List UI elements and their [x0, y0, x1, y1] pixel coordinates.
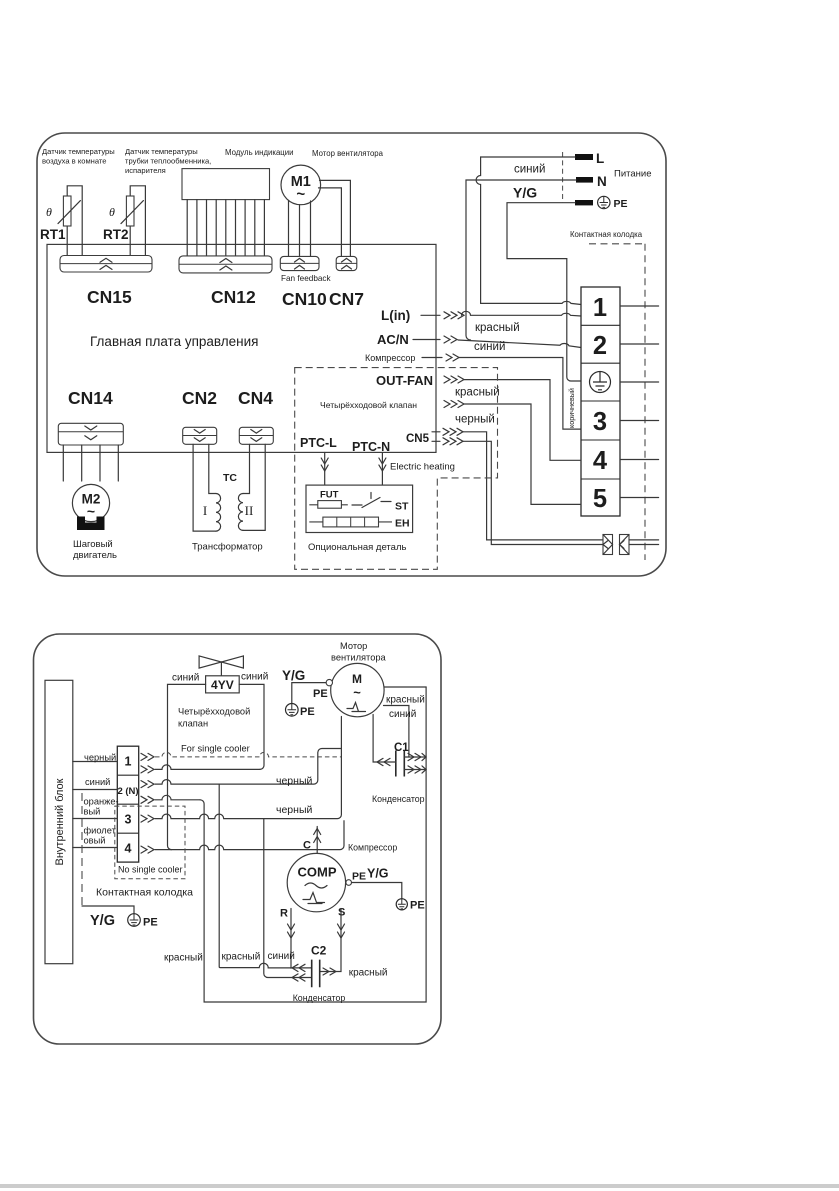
- COMP PE dot: [346, 880, 352, 886]
- terminal right stub wires: [620, 306, 659, 498]
- svg-text:Шаговый: Шаговый: [73, 539, 113, 550]
- svg-text:Y/G: Y/G: [367, 867, 389, 881]
- compressor COMP circle: [287, 853, 345, 911]
- dashed ground branch: [81, 793, 83, 906]
- svg-text:CN15: CN15: [87, 287, 132, 307]
- dashed optional section boundary: [295, 368, 498, 570]
- svg-text:3: 3: [593, 408, 607, 436]
- detachable connector right: [620, 535, 630, 555]
- wire Y/G bottom: [82, 906, 134, 914]
- svg-text:2 (N): 2 (N): [117, 786, 138, 797]
- arrows CN5 upper: [443, 428, 463, 435]
- arrows C2 right: [323, 968, 336, 975]
- thermal switch ST: [352, 493, 391, 508]
- arrows C2 left upper: [292, 964, 305, 971]
- Y/G vertical to ground cell: [567, 259, 581, 381]
- optional parts box: [306, 485, 413, 532]
- svg-text:No single cooler: No single cooler: [118, 865, 183, 875]
- connector CN14: [58, 423, 123, 445]
- dashed plug boundary: [562, 152, 564, 203]
- svg-text:Датчик температуры: Датчик температуры: [125, 147, 198, 156]
- svg-text:Мотор: Мотор: [340, 641, 367, 651]
- svg-text:For single cooler: For single cooler: [181, 744, 250, 754]
- arrows cell1 row: [141, 766, 154, 773]
- connector outgoing wires: [629, 540, 659, 545]
- outer border frame top diagram: [37, 133, 666, 576]
- arrows R down: [288, 924, 295, 938]
- wire C1 right upper: [404, 756, 426, 758]
- black wire V4 to C2: [219, 784, 311, 968]
- indoor unit box: [45, 680, 73, 963]
- svg-text:θ: θ: [46, 205, 52, 219]
- arrows AC/N: [444, 336, 457, 343]
- arrows C up: [314, 829, 321, 843]
- display module pins: [187, 200, 264, 256]
- wire motor bottom to C1 left: [373, 715, 396, 763]
- thermistor RT2 wires: [130, 186, 145, 256]
- M1 wires to CN7: [319, 180, 351, 256]
- transformer primary wires: [193, 444, 216, 531]
- display module box: [182, 169, 270, 200]
- svg-text:овый: овый: [84, 836, 106, 846]
- svg-text:вый: вый: [84, 807, 101, 817]
- No single cooler dashed box: [115, 806, 185, 879]
- wire Y/G motor to ground: [292, 683, 326, 704]
- svg-text:Контактная колодка: Контактная колодка: [570, 230, 643, 239]
- svg-text:Опциональная деталь: Опциональная деталь: [308, 542, 406, 553]
- wire motor red right: [384, 686, 426, 688]
- svg-text:Контактная колодка: Контактная колодка: [96, 887, 193, 899]
- wire cell2 red short: [155, 795, 200, 799]
- capacitor C2 plates: [312, 960, 320, 988]
- fan motor M circle: [331, 663, 384, 716]
- S wire down: [321, 909, 341, 972]
- svg-text:черный: черный: [84, 753, 116, 763]
- svg-text:черный: черный: [276, 775, 312, 787]
- M overload glyph: [347, 703, 366, 712]
- svg-text:красный: красный: [475, 322, 520, 334]
- svg-text:Y/G: Y/G: [90, 913, 115, 929]
- svg-text:Y/G: Y/G: [513, 185, 537, 201]
- svg-text:Компрессор: Компрессор: [365, 353, 415, 363]
- power terminal PE bar: [575, 200, 593, 205]
- M2 black bracket symbol: [77, 517, 105, 531]
- wire L to down corner: [476, 157, 575, 303]
- power terminal L bar: [575, 154, 593, 160]
- svg-text:CN7: CN7: [329, 289, 364, 309]
- svg-text:черный: черный: [455, 414, 495, 426]
- svg-text:1: 1: [593, 294, 607, 322]
- svg-text:OUT-FAN: OUT-FAN: [376, 373, 433, 388]
- svg-text:5: 5: [593, 485, 607, 513]
- svg-text:Внутренний блок: Внутренний блок: [54, 778, 66, 865]
- 4YV box: [206, 676, 240, 693]
- thermistor RT1 wires: [67, 186, 82, 256]
- svg-text:C: C: [303, 840, 311, 852]
- svg-text:4: 4: [125, 842, 132, 856]
- svg-text:красный: красный: [164, 953, 203, 964]
- svg-text:~: ~: [296, 186, 305, 203]
- arrows OUT-FAN: [444, 376, 464, 383]
- CN14 pins: [63, 445, 118, 481]
- svg-text:красный: красный: [455, 387, 500, 399]
- wire PTC-L down: [324, 453, 326, 486]
- svg-text:2: 2: [593, 332, 607, 360]
- compressor C wire with arrows: [316, 827, 318, 854]
- svg-text:Fan feedback: Fan feedback: [281, 274, 332, 283]
- svg-text:N: N: [597, 174, 607, 189]
- svg-text:Конденсатор: Конденсатор: [372, 794, 425, 804]
- svg-text:оранже-: оранже-: [84, 797, 119, 807]
- wire CN5 lower: [432, 441, 603, 544]
- wire C1 right lower: [404, 769, 426, 771]
- wire Y/G from PE: [507, 203, 575, 259]
- R wire down: [290, 909, 292, 969]
- thermistor RT2 body: [126, 196, 134, 226]
- svg-text:II: II: [245, 503, 254, 518]
- svg-text:CN14: CN14: [68, 388, 113, 408]
- svg-text:Главная плата управления: Главная плата управления: [90, 334, 258, 349]
- arrows PTC-N down: [379, 458, 386, 471]
- wire COMP PE to ground: [352, 883, 402, 899]
- detachable connector left: [603, 535, 613, 555]
- svg-text:Мотор вентилятора: Мотор вентилятора: [312, 149, 384, 158]
- svg-text:Конденсатор: Конденсатор: [293, 993, 346, 1003]
- transformer secondary wires: [243, 444, 265, 530]
- svg-text:Четырёхходовой клапан: Четырёхходовой клапан: [320, 400, 417, 410]
- thermistor RT2 diagonal: [121, 201, 143, 224]
- svg-text:CN2: CN2: [182, 388, 217, 408]
- wire 4YV left: [168, 684, 206, 849]
- arrows C1 right lower: [408, 766, 426, 773]
- wire L horizontal into terminal 1: [481, 301, 581, 304]
- terminal strip 2 box: [117, 746, 138, 862]
- COMP overload glyph: [303, 893, 325, 904]
- arrows CN5 lower: [443, 438, 463, 445]
- PE ground symbol COMP: [396, 899, 407, 910]
- svg-text:синий: синий: [389, 709, 416, 720]
- svg-text:L(in): L(in): [381, 308, 410, 323]
- dashed terminal block boundary vertical: [644, 244, 646, 560]
- svg-text:Датчик температуры: Датчик температуры: [42, 147, 115, 156]
- svg-text:вентилятора: вентилятора: [331, 653, 387, 663]
- wire OUT-FAN to terminal 4: [464, 380, 581, 461]
- arrows cell4 row: [141, 846, 154, 853]
- connector CN2: [183, 427, 217, 444]
- arrows cell2 row1: [141, 781, 154, 788]
- indoor unit wires to strip: [73, 762, 118, 848]
- outer border frame bottom diagram: [34, 634, 442, 1044]
- svg-text:трубки теплообменника,: трубки теплообменника,: [125, 157, 211, 166]
- arrows клапан: [444, 401, 464, 408]
- svg-text:двигатель: двигатель: [73, 550, 117, 561]
- main control board rectangle: [47, 244, 436, 452]
- svg-text:CN5: CN5: [406, 433, 430, 445]
- connector CN7: [336, 256, 357, 270]
- blue vertical to C2: [264, 819, 311, 978]
- svg-text:C2: C2: [311, 944, 327, 958]
- COMP tilde: [305, 883, 327, 888]
- svg-text:CN12: CN12: [211, 287, 256, 307]
- svg-text:~: ~: [353, 685, 361, 700]
- arrows cell2 row2: [141, 796, 154, 803]
- wire 4YV right: [239, 684, 264, 769]
- wire AC/N to terminal 2: [458, 340, 581, 348]
- arrows S down: [338, 924, 345, 938]
- fan motor M1 circle: [281, 165, 321, 205]
- svg-text:RT2: RT2: [103, 227, 129, 242]
- wire cell4 black bottom: [155, 821, 344, 850]
- svg-text:~: ~: [87, 503, 95, 519]
- svg-text:синий: синий: [241, 672, 268, 683]
- svg-text:M: M: [352, 672, 362, 686]
- stepper motor M2 circle: [72, 484, 109, 521]
- svg-text:Трансформатор: Трансформатор: [192, 542, 263, 553]
- fuse symbol: [309, 501, 348, 509]
- svg-text:черный: черный: [276, 804, 312, 816]
- terminal cell borders: [581, 325, 620, 479]
- wire N to down corner: [466, 180, 576, 340]
- svg-text:испарителя: испарителя: [125, 166, 166, 175]
- svg-text:красный: красный: [222, 952, 261, 963]
- terminal PE ground symbol: [590, 372, 611, 393]
- wire L(in) to terminal 1: [421, 314, 440, 316]
- svg-text:PTC-L: PTC-L: [300, 436, 337, 450]
- svg-text:S: S: [338, 907, 345, 919]
- capacitor C1 plates: [396, 751, 405, 777]
- svg-text:L: L: [596, 151, 604, 166]
- connector CN12: [179, 256, 272, 273]
- svg-text:воздуха в комнате: воздуха в комнате: [42, 157, 107, 166]
- svg-text:ST: ST: [395, 501, 409, 513]
- svg-text:RT1: RT1: [40, 227, 66, 242]
- connector CN10: [280, 256, 319, 270]
- svg-text:I: I: [203, 503, 207, 518]
- arrows C1 left: [377, 758, 390, 765]
- svg-text:Питание: Питание: [614, 169, 652, 180]
- svg-text:PE: PE: [614, 198, 628, 210]
- svg-text:фиолет: фиолет: [84, 826, 117, 836]
- dashed for-single-cooler wire: [155, 752, 342, 757]
- svg-text:PE: PE: [352, 871, 366, 883]
- svg-text:CN4: CN4: [238, 388, 273, 408]
- svg-text:FUT: FUT: [320, 490, 339, 501]
- svg-text:PE: PE: [313, 688, 328, 700]
- svg-text:PTC-N: PTC-N: [352, 440, 390, 454]
- svg-text:коричневый: коричневый: [567, 388, 576, 428]
- thermistor RT1 body: [63, 196, 71, 226]
- wire AC/N from board: [413, 339, 440, 341]
- svg-text:PE: PE: [300, 706, 315, 718]
- svg-text:синий: синий: [474, 341, 505, 353]
- svg-text:Модуль индикации: Модуль индикации: [225, 148, 293, 157]
- svg-text:клапан: клапан: [178, 719, 208, 729]
- transformer secondary coil: [238, 494, 243, 531]
- svg-text:COMP: COMP: [298, 865, 337, 880]
- wire Компрессор from board: [422, 357, 442, 359]
- transformer primary coil: [216, 494, 221, 532]
- svg-text:R: R: [280, 908, 288, 920]
- page bottom scan edge: [0, 1184, 839, 1188]
- svg-text:4: 4: [593, 447, 608, 475]
- wire cell1 to 4YV right: [155, 765, 260, 770]
- PE ground symbol at power: [598, 196, 610, 208]
- 4YV valve bowtie symbol: [199, 656, 243, 676]
- svg-text:синий: синий: [268, 951, 295, 962]
- PE ground symbol motor: [286, 704, 299, 717]
- svg-text:AC/N: AC/N: [377, 332, 409, 347]
- M PE dot: [326, 679, 332, 685]
- svg-text:красный: красный: [349, 968, 388, 979]
- M1 pins to CN10: [289, 201, 311, 257]
- svg-text:θ: θ: [109, 205, 115, 219]
- svg-text:синий: синий: [172, 673, 199, 684]
- arrows L(in): [444, 312, 464, 319]
- wire Компрессор brown path to terminal 3: [459, 358, 581, 430]
- svg-text:4YV: 4YV: [211, 678, 234, 692]
- svg-text:1: 1: [125, 755, 132, 769]
- svg-text:синий: синий: [85, 777, 110, 787]
- wire cell2 black to motor: [155, 749, 341, 785]
- thermistor RT1 diagonal: [58, 201, 80, 224]
- wire cell3 to motor vertical: [155, 717, 341, 819]
- svg-text:EH: EH: [395, 518, 410, 530]
- arrows C2 left lower: [292, 974, 305, 981]
- wire PTC-N down: [381, 453, 383, 486]
- red loop wire right side V5: [200, 687, 426, 1002]
- svg-text:TC: TC: [223, 472, 237, 484]
- connector CN15: [60, 256, 152, 273]
- wire motor blue right: [384, 706, 409, 758]
- connector CN4: [239, 427, 273, 444]
- power terminal N bar: [576, 177, 593, 183]
- svg-text:PE: PE: [410, 900, 425, 912]
- svg-text:CN10: CN10: [282, 289, 327, 309]
- svg-text:PE: PE: [143, 917, 158, 929]
- svg-text:3: 3: [125, 813, 132, 827]
- arrows C1 right upper: [408, 753, 426, 760]
- wire L(in) continuation: [462, 311, 582, 316]
- arrows PTC-L down: [321, 458, 328, 471]
- arrows Компрессор: [446, 354, 459, 361]
- svg-text:Y/G: Y/G: [282, 668, 305, 683]
- svg-text:Electric heating: Electric heating: [390, 462, 455, 473]
- strip 2 cell borders: [117, 775, 138, 833]
- svg-text:красный: красный: [386, 695, 425, 706]
- svg-text:Четырёхходовой: Четырёхходовой: [178, 707, 250, 717]
- heater EH symbol: [309, 517, 392, 527]
- svg-text:синий: синий: [514, 164, 545, 176]
- arrows cell3 row: [141, 815, 154, 822]
- dashed terminal block boundary horizontal: [589, 243, 645, 245]
- svg-text:Компрессор: Компрессор: [348, 843, 397, 853]
- wire CN5 upper: [432, 432, 603, 540]
- terminal strip box: [581, 287, 620, 516]
- PE ground symbol bottom left: [128, 914, 141, 927]
- arrows dashed row: [141, 753, 154, 760]
- wire клапан to terminal 5: [464, 404, 581, 504]
